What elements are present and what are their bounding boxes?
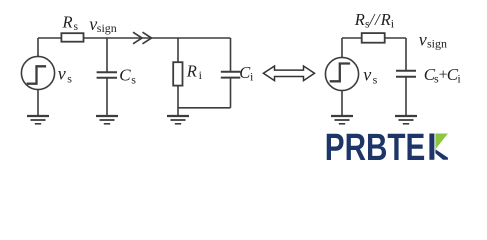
svg-text:i: i [250, 69, 254, 83]
svg-text:i: i [199, 68, 203, 82]
svg-text:i: i [391, 17, 395, 31]
wire bottom horizontal (Ri to Ci) [178, 107, 231, 109]
wire right source bottom [341, 91, 343, 116]
wire Ci top [230, 38, 232, 72]
wire right top left horizontal [342, 37, 362, 39]
wire right top right horizontal [385, 37, 406, 39]
label Cs+Ci [424, 65, 462, 86]
node v_sign label [89, 14, 117, 35]
logo PRBTEK text [325, 127, 426, 169]
svg-text:R: R [354, 10, 365, 29]
wire source bottom [37, 90, 39, 116]
svg-text:s: s [74, 21, 79, 33]
svg-text:sign: sign [97, 21, 117, 35]
wire Ri bottom [177, 86, 179, 116]
wire Cs top [106, 38, 108, 72]
svg-text:sign: sign [427, 37, 447, 51]
label R_s [62, 12, 79, 33]
voltage source VS1 (left) [21, 56, 54, 89]
capacitor C_s [97, 72, 117, 78]
svg-text:v: v [419, 30, 427, 50]
svg-text:i: i [457, 72, 461, 86]
ground (Cs) [96, 116, 118, 124]
wire top left horizontal [38, 37, 61, 39]
svg-text:v: v [58, 63, 66, 83]
equivalence arrow [263, 66, 314, 81]
svg-text:R: R [186, 62, 197, 81]
svg-text:R: R [380, 10, 391, 29]
label v_sign (right) [419, 30, 447, 51]
ground (right cap) [395, 116, 417, 124]
arrow chevron 2 [143, 32, 152, 44]
ground (right source) [331, 116, 353, 124]
wire right cap bottom [405, 77, 407, 115]
label Rs//Ri [354, 10, 395, 31]
svg-text:PRBTE: PRBTE [325, 127, 426, 169]
label C_i [239, 63, 254, 84]
capacitor C_i [221, 72, 241, 78]
ground (source left) [27, 116, 49, 124]
wire Cs bottom [106, 78, 108, 115]
wire right cap top [405, 38, 407, 71]
resistor R_s [61, 33, 83, 42]
resistor R_i [173, 62, 182, 85]
svg-text:s: s [131, 72, 136, 86]
wire top middle horizontal [84, 37, 231, 39]
label v_s (left source) [58, 63, 73, 85]
ground (Ri) [167, 116, 189, 124]
logo K green triangle [435, 134, 448, 150]
wire source top vertical [37, 38, 39, 56]
label C_s [119, 66, 136, 87]
label v_s (right source) [363, 65, 377, 87]
svg-text:v: v [363, 65, 371, 85]
wire Ri top [177, 38, 179, 62]
arrow chevron 1 [133, 32, 142, 44]
svg-text:R: R [62, 12, 73, 31]
wire Ci bottom [230, 78, 232, 108]
logo K vertical bar [429, 134, 434, 160]
logo K leg [435, 149, 448, 160]
resistor Rs//Ri [362, 33, 385, 43]
capacitor Cs+Ci [396, 71, 416, 77]
wire right source top [341, 38, 343, 57]
svg-text:s: s [373, 72, 378, 86]
label R_i [186, 62, 203, 83]
voltage source VS2 (right) [325, 57, 358, 90]
svg-text:s: s [67, 71, 72, 85]
svg-text:C: C [119, 66, 131, 85]
